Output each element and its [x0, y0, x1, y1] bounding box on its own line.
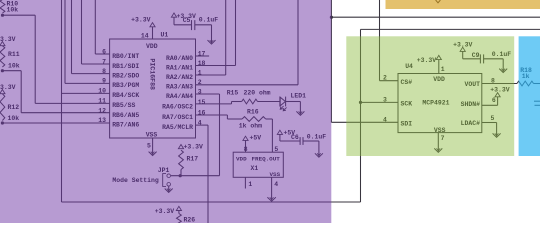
wire C5 right — [195, 25, 212, 36]
U4 left pin numbers — [383, 75, 387, 124]
wire mode bus y202 — [62, 201, 361, 203]
wire U4 VSS pin7 — [438, 133, 444, 147]
wire R10 to RB5 bend — [3, 15, 110, 103]
capacitor at right edge — [534, 101, 540, 105]
node R11 bottom junction — [1, 69, 4, 72]
wire net SCK right segment — [360, 29, 362, 202]
wire net CS vertical — [380, 0, 399, 81]
power +3.3V for R17 — [178, 144, 203, 151]
wire net B to right edge — [361, 28, 540, 30]
wire C9 right — [484, 59, 504, 67]
highlight region green DAC section — [346, 36, 514, 156]
power +3.3V for C5 — [171, 13, 196, 20]
resistor R15 220 ohm — [227, 90, 271, 104]
wire R12 to RB7 — [2, 122, 109, 124]
wire RA6 pin15 to R15 — [196, 102, 242, 104]
wire LDAC pin5 — [482, 115, 497, 131]
ground below C9 — [499, 67, 507, 73]
power +3.3V for SHDN — [490, 86, 509, 97]
capacitor C6 — [291, 134, 326, 145]
wire C6 right — [303, 141, 319, 150]
U1 part number PIC16F88 — [148, 58, 155, 90]
ground below C5 — [208, 36, 216, 44]
capacitor C9 — [472, 51, 511, 63]
power +3.3V for R26 — [155, 206, 182, 215]
wire net SCK vertical — [61, 0, 63, 202]
U4 pin names — [401, 76, 481, 134]
wire RA1 pin18 — [196, 0, 236, 66]
wire R15 to LED1 — [258, 101, 280, 103]
op- U1 PIC16F88 box — [110, 39, 196, 138]
node R10 bottom junction — [1, 14, 4, 17]
resistor R12 — [0, 94, 19, 122]
wire RA0 pin17 stub — [196, 55, 210, 57]
U1 right pin labels RA0-RA7 — [162, 50, 205, 131]
ground below LED1 — [296, 110, 304, 115]
wire R11 to RB6 bend — [2, 71, 109, 113]
pin 5 label X1 — [274, 146, 278, 153]
wire RA7 pin16 to R16 — [196, 115, 243, 119]
wire to RB3 pin9 — [65, 0, 110, 83]
power +3.3V above R11 — [0, 36, 16, 46]
node SCK junction at U4 — [359, 101, 362, 104]
power +3.3V for C9 — [453, 42, 472, 52]
ground below X1 pin4 — [267, 196, 275, 201]
pin 8 label X1 — [244, 146, 248, 153]
wire net SDI vertical — [330, 0, 332, 122]
ground below JP1 — [165, 186, 173, 192]
wire VSS pin5 — [152, 138, 154, 150]
ground below C6 — [315, 150, 323, 157]
wire SDI to U4 pin4 — [331, 121, 398, 123]
wire C9 left — [463, 51, 481, 58]
jumper JP1 — [158, 167, 171, 187]
U1 designator — [161, 32, 169, 39]
power +5V for C6 — [277, 129, 295, 136]
label Mode Setting — [112, 177, 158, 184]
wire RA4 pin3 to jumper — [196, 94, 220, 176]
wire X1 pin1 stub — [245, 177, 252, 188]
wire SHDN pin6 — [482, 97, 498, 106]
oscillator X1 box — [233, 152, 283, 177]
wire SCK to RB4 pin10 — [62, 92, 110, 94]
power +3.3V for U1 VDD — [131, 17, 155, 27]
pin 14 label — [141, 32, 149, 39]
ground below U1 VSS — [149, 150, 157, 156]
wire X1 pin4 — [272, 177, 279, 196]
U1 left pin labels RB0-RB7 — [98, 48, 139, 128]
resistor R10 — [0, 0, 18, 14]
wire R17 to junction — [180, 170, 182, 176]
ground below U4 VSS — [434, 147, 442, 153]
U1 VSS pin name — [146, 132, 158, 139]
node SDI junction — [330, 16, 333, 19]
wire to RB2 pin8 — [72, 0, 110, 74]
ground below LDAC — [493, 131, 501, 137]
X1 pin names — [236, 156, 281, 179]
wire SCK to U4 pin3 — [361, 101, 399, 103]
highlight region orange top band — [386, 0, 540, 9]
wire RA2 pin1 — [196, 0, 226, 75]
resistor R16 1k ohm — [239, 109, 266, 130]
resistor R26 — [177, 214, 196, 230]
wire U4 VDD pin1 — [439, 60, 445, 74]
node R17 JP1 junction — [179, 174, 182, 177]
wire LED1 cathode — [285, 102, 300, 111]
power +3.3V for U4 VDD — [417, 55, 442, 64]
power +5V for X1 — [243, 135, 261, 142]
highlight region blue output section — [519, 36, 540, 156]
U1 VDD pin name — [146, 43, 158, 50]
pin 5 label — [147, 143, 151, 150]
wire R18 to edge — [534, 83, 540, 85]
resistor R18 1k — [517, 67, 534, 86]
wire jumper to RA4 — [171, 175, 220, 177]
wire to RB1 pin7 — [82, 0, 110, 64]
wire net A to right edge — [331, 16, 540, 18]
highlight region purple microcontroller section — [0, 0, 331, 223]
node R12 bottom junction — [1, 121, 4, 124]
wire C6 left — [280, 134, 300, 141]
LED LED1 — [280, 93, 306, 111]
wire R16 to X1 FREQ.OUT — [266, 119, 273, 152]
wire to RB0 pin6 — [95, 0, 109, 54]
capacitor C5 — [183, 17, 219, 31]
wire RA5 pin4 down — [196, 125, 209, 223]
resistor R17 — [179, 150, 199, 169]
U4 designator — [405, 63, 413, 70]
wire C5 left — [174, 17, 192, 25]
wire VOUT pin8 — [482, 77, 517, 84]
wire X1 VDD pin8 — [245, 140, 247, 152]
wire VDD pin14 — [152, 27, 154, 39]
resistor R11 — [0, 46, 20, 70]
ground stub at top edge — [436, 0, 441, 3]
dac U4 MCP4921 box — [398, 74, 482, 133]
wire RA3 pin2 — [196, 0, 299, 85]
power +3.3V above R12 — [0, 84, 16, 94]
